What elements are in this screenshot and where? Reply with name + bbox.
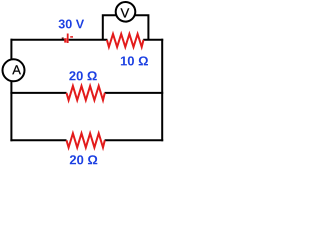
resistor R1 10 ohm zigzag — [107, 34, 144, 47]
label: 10 ohm — [121, 56, 148, 65]
wire: top wire left segment — [11, 39, 65, 41]
resistor R3 20 ohm zigzag (bottom branch) — [67, 133, 105, 147]
wire: bottom wire right segment — [105, 139, 164, 141]
wire: left vertical wire — [10, 39, 12, 142]
wire: right vertical wire — [161, 39, 163, 142]
wire: top wire right segment — [143, 39, 163, 41]
label: 20 ohm (bottom) — [70, 155, 98, 164]
resistor R2 20 ohm zigzag (middle branch) — [67, 86, 105, 100]
wire: middle branch right segment — [105, 92, 164, 94]
ammeter A1 circle — [3, 59, 25, 81]
ammeter letter A — [12, 65, 21, 74]
wire: bottom wire left segment — [10, 139, 66, 141]
wire: middle branch left segment — [10, 92, 66, 94]
voltmeter V1 circle — [116, 2, 136, 22]
voltmeter letter V — [121, 8, 130, 17]
wire: voltmeter bracket right leg — [135, 15, 149, 39]
label: 20 ohm (middle) — [69, 71, 97, 80]
wire: top wire middle segment (battery to 10 ohm resistor) — [69, 39, 108, 41]
wire: voltmeter bracket left leg — [103, 15, 117, 39]
label: 30 V — [59, 20, 85, 29]
battery B1 30 V cell — [62, 34, 73, 44]
